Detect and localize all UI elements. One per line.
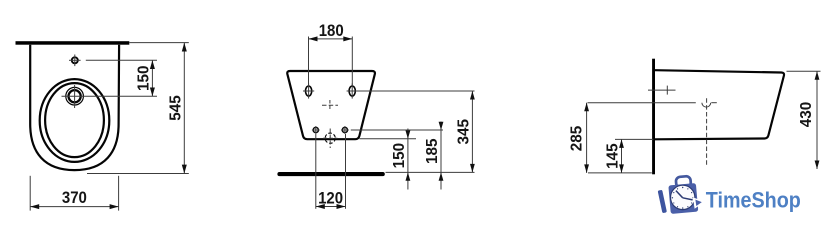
dimension 545 — [167, 43, 187, 174]
svg-text:430: 430 — [798, 102, 815, 128]
svg-text:120: 120 — [318, 190, 343, 208]
svg-text:345: 345 — [455, 119, 472, 145]
wall line — [652, 59, 655, 175]
svg-text:180: 180 — [319, 22, 344, 40]
svg-text:545: 545 — [167, 95, 184, 121]
leader mounting holes — [357, 90, 475, 92]
bidet outer contour — [30, 45, 119, 170]
bidet rear outline (trapezoid) — [287, 71, 375, 139]
dimension 430 — [798, 71, 820, 169]
logo stripe — [658, 190, 667, 213]
drain hole — [323, 129, 337, 149]
leader bolt holes — [351, 129, 443, 131]
leader faucet hole — [62, 95, 158, 97]
inner rim oval — [45, 83, 104, 157]
water supply mark — [648, 86, 676, 95]
bidet side profile — [655, 70, 784, 139]
svg-text:285: 285 — [568, 126, 585, 152]
dimension 150 left view — [135, 60, 155, 96]
bolt hole left — [312, 126, 320, 134]
floor reference line — [588, 172, 652, 174]
dimension 285 — [568, 103, 589, 173]
logo arrow — [693, 197, 705, 209]
svg-text:185: 185 — [424, 138, 441, 164]
dimension 120 — [316, 134, 346, 209]
bolt hole right — [341, 126, 349, 134]
mounting hole left — [303, 83, 314, 98]
outer rim oval — [40, 79, 110, 162]
svg-text:145: 145 — [604, 143, 621, 169]
center mark — [322, 100, 338, 111]
leader wall top — [129, 42, 189, 44]
dimension 345 — [455, 91, 475, 172]
leader top corner — [787, 70, 821, 72]
dimension 145 — [604, 139, 624, 173]
leader tap hole — [86, 59, 157, 61]
drain trap mark — [702, 98, 717, 165]
drain leader — [588, 102, 696, 104]
rim bar below — [277, 172, 384, 176]
dimension 180 — [309, 22, 353, 85]
svg-text:TimeShop: TimeShop — [706, 187, 801, 212]
logo clock — [671, 185, 695, 209]
logo bag — [668, 175, 699, 213]
leader rim bar — [386, 171, 475, 173]
wall bar — [16, 41, 130, 45]
svg-text:370: 370 — [62, 189, 87, 207]
leader drain — [360, 138, 417, 140]
leader bottom edge — [615, 138, 653, 140]
mounting hole right — [347, 83, 357, 98]
svg-text:150: 150 — [391, 143, 408, 169]
dimension 185 — [424, 122, 444, 190]
dimension 370 — [30, 176, 118, 211]
tap hole — [69, 55, 81, 67]
svg-text:150: 150 — [135, 65, 152, 91]
faucet hole — [66, 85, 84, 108]
leader bottom — [87, 173, 189, 175]
dimension 150 center — [391, 129, 411, 190]
